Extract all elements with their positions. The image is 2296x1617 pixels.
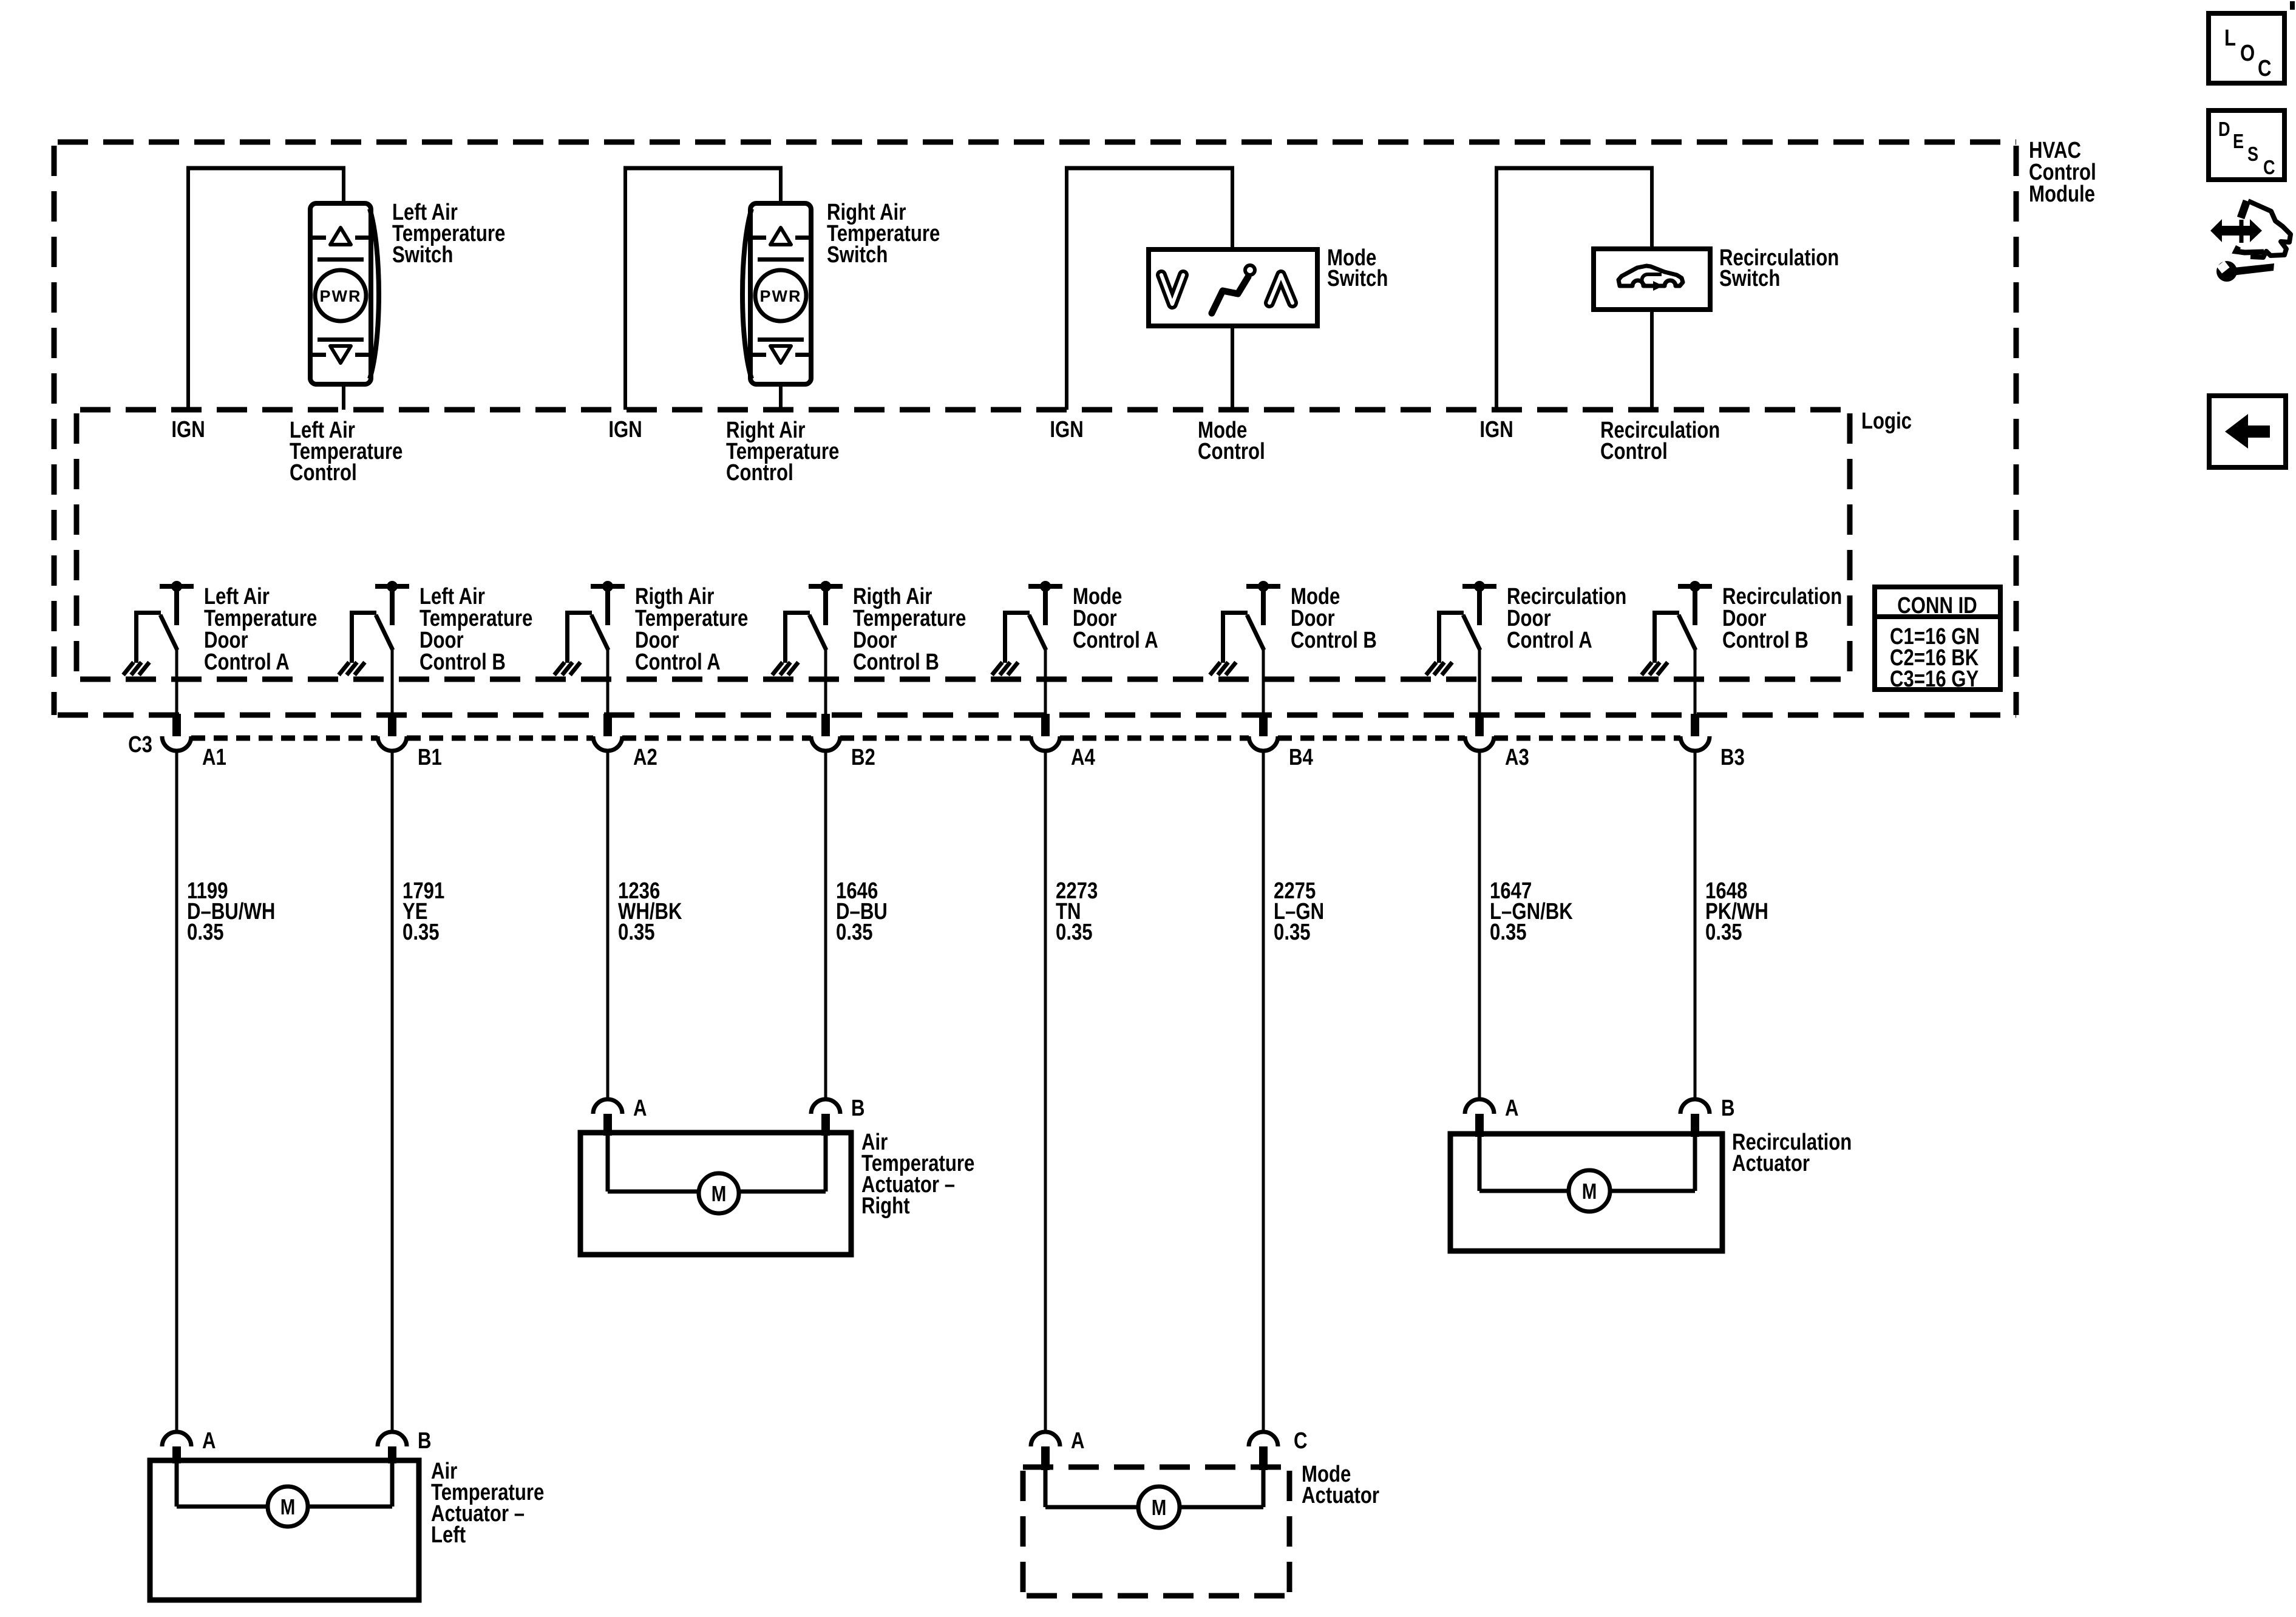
Right Air Temperature Switch up arrow xyxy=(770,228,791,245)
wire IGN Right Air Temperature (vertical to Logic) xyxy=(623,168,627,410)
icon: DESC box xyxy=(2209,110,2284,180)
wire 1791 run xyxy=(391,751,394,1432)
wire Left Air Control B gate output to connector xyxy=(391,648,394,714)
wire Recirculation Control B gate output to connector xyxy=(1694,648,1697,714)
motor M left air temperature actuator xyxy=(268,1486,308,1527)
wire Left Air Temperature Switch top lead xyxy=(342,168,345,203)
wire IGN feed Right Air Temperature (horizontal) xyxy=(623,166,783,171)
motor M recirculation actuator xyxy=(1569,1170,1610,1212)
CONN ID table xyxy=(1875,587,2000,690)
connector pin B4 terminal xyxy=(1259,714,1268,736)
switch blade Recirculation Door Control B xyxy=(1679,615,1696,650)
wire Right Air Temperature Switch bottom lead to Logic xyxy=(779,384,783,410)
svg-text:B: B xyxy=(851,1096,865,1121)
svg-text:E: E xyxy=(2233,131,2244,153)
switch blade Rigth Air Temperature Door Control A xyxy=(591,615,608,650)
logic driver: Mode Door Control B xyxy=(1210,581,1280,675)
Mode Switch down-chevron icon xyxy=(1161,275,1183,304)
svg-text:B1: B1 xyxy=(418,745,442,770)
connector pin A3 terminal xyxy=(1475,714,1484,736)
svg-text:M: M xyxy=(1152,1495,1167,1519)
wire Mode Control A gate output to connector xyxy=(1044,648,1047,714)
ground (chassis) for Left Air Temperature Door Control B xyxy=(339,662,349,675)
logic driver: Rigth Air Temperature Door Control A xyxy=(554,581,625,675)
connector pin B2 terminal xyxy=(821,714,830,736)
wire 1647 run xyxy=(1478,751,1481,1100)
ground (chassis) for Recirculation Door Control B xyxy=(1642,662,1652,675)
Logic dashed box xyxy=(76,410,1850,679)
connector pin B3 terminal xyxy=(1691,714,1699,736)
Left Air Temperature Switch PWR button xyxy=(315,270,366,321)
connector pin A actuator terminal xyxy=(1031,1432,1060,1446)
svg-text:IGN: IGN xyxy=(1050,417,1083,442)
switch blade Mode Door Control B xyxy=(1247,615,1264,650)
wire Mode Control B gate output to connector xyxy=(1262,648,1265,714)
svg-text:C1=16 GNC2=16 BKC3=16 GY: C1=16 GNC2=16 BKC3=16 GY xyxy=(1890,624,1980,692)
svg-text:A3: A3 xyxy=(1505,745,1529,770)
svg-text:B: B xyxy=(1721,1096,1735,1121)
switch blade Mode Door Control A xyxy=(1029,615,1046,650)
wire Recirculation Control A gate output to connector xyxy=(1478,648,1481,714)
svg-text:PWR: PWR xyxy=(760,287,802,305)
icon: back arrow box xyxy=(2209,396,2286,467)
Air Temperature Actuator Right inner wiring xyxy=(606,1133,610,1192)
switch blade Left Air Temperature Door Control A xyxy=(160,615,177,650)
logic driver: Recirculation Door Control A xyxy=(1426,581,1496,675)
svg-text:A: A xyxy=(1071,1428,1085,1454)
svg-text:A2: A2 xyxy=(633,745,657,770)
wire Recirculation Switch top lead xyxy=(1650,168,1654,249)
svg-text:L: L xyxy=(2224,25,2236,51)
wire 2273 run xyxy=(1044,751,1047,1432)
ground (chassis) for Recirculation Door Control A xyxy=(1426,662,1436,675)
wire 1236 run xyxy=(606,751,610,1100)
svg-text:PWR: PWR xyxy=(320,287,362,305)
logic driver: Left Air Temperature Door Control B xyxy=(339,581,409,675)
wire 1199 run xyxy=(175,751,178,1432)
Mode Switch box xyxy=(1149,249,1317,326)
svg-text:Logic: Logic xyxy=(1861,408,1912,434)
svg-text:A1: A1 xyxy=(202,745,226,770)
wire Mode Switch bottom lead to Logic xyxy=(1231,326,1234,410)
svg-text:IGN: IGN xyxy=(1479,417,1513,442)
logic driver: Mode Door Control A xyxy=(992,581,1062,675)
svg-text:D: D xyxy=(2218,119,2230,141)
logic driver: Recirculation Door Control B xyxy=(1642,581,1712,675)
switch blade Recirculation Door Control A xyxy=(1463,615,1480,650)
wire Rigth Air Control A gate output to connector xyxy=(606,648,610,714)
wire Left Air Control A gate output to connector xyxy=(175,648,178,714)
wire IGN Mode (vertical to Logic) xyxy=(1065,168,1068,410)
Mode Actuator inner wiring xyxy=(1044,1467,1048,1507)
svg-text:M: M xyxy=(1582,1179,1597,1203)
svg-text:C: C xyxy=(2258,56,2272,81)
ground (chassis) for Mode Door Control A xyxy=(992,662,1002,675)
Recirculation Actuator inner wiring xyxy=(1478,1134,1482,1191)
svg-text:A: A xyxy=(202,1428,216,1454)
wire Right Air Temperature Switch top lead xyxy=(779,168,783,203)
wire Mode Switch top lead xyxy=(1231,168,1234,249)
svg-text:C: C xyxy=(2263,157,2275,179)
wire 2275 run xyxy=(1262,751,1265,1432)
logic driver: Left Air Temperature Door Control A xyxy=(123,581,194,675)
switch: Right Air Temperature Switch rocker body xyxy=(742,209,752,379)
svg-text:S: S xyxy=(2247,144,2258,166)
svg-text:M: M xyxy=(712,1181,727,1205)
connector pin A actuator terminal xyxy=(162,1432,191,1446)
svg-text:IGN: IGN xyxy=(171,417,205,442)
wire 1646 run xyxy=(824,751,827,1100)
Recirculation Switch recirc arrow xyxy=(1642,274,1662,286)
connector pin A2 terminal xyxy=(603,714,612,736)
svg-text:B3: B3 xyxy=(1720,745,1745,770)
svg-text:IGN: IGN xyxy=(608,417,642,442)
connector pin C actuator terminal xyxy=(1249,1432,1278,1446)
svg-text:O: O xyxy=(2240,41,2255,66)
connector pin A actuator terminal xyxy=(593,1099,622,1114)
motor M right air temperature actuator xyxy=(699,1173,739,1213)
svg-text:CONN ID: CONN ID xyxy=(1897,593,1977,619)
Mode Switch up-chevron icon xyxy=(1269,275,1292,303)
switch blade Rigth Air Temperature Door Control B xyxy=(809,615,826,650)
Recirculation Switch box xyxy=(1594,249,1710,310)
connector pin A actuator terminal xyxy=(1465,1099,1494,1114)
switch blade Left Air Temperature Door Control B xyxy=(376,615,393,650)
icon: hand with double arrow and wrench xyxy=(2210,201,2291,282)
connector face dotted line xyxy=(191,736,378,741)
logic driver: Rigth Air Temperature Door Control B xyxy=(772,581,843,675)
wire IGN Left Air Temperature (vertical to Logic) xyxy=(186,168,190,410)
switch: Left Air Temperature Switch rocker body xyxy=(370,209,379,379)
Right Air Temperature Switch PWR button xyxy=(755,270,806,321)
ground (chassis) for Rigth Air Temperature Door Control B xyxy=(772,662,783,675)
Recirculation Switch car icon xyxy=(1618,266,1683,286)
wire IGN feed Left Air Temperature (horizontal) xyxy=(186,166,345,171)
Mode Switch seat icon xyxy=(1212,277,1248,313)
svg-text:C: C xyxy=(1294,1428,1308,1454)
wire Left Air Temperature Switch bottom lead to Logic xyxy=(342,384,345,410)
icon: LOC box xyxy=(2209,13,2284,83)
motor M mode actuator xyxy=(1138,1486,1180,1528)
actuator: Recirculation Actuator box xyxy=(1450,1134,1722,1251)
svg-text:A: A xyxy=(633,1096,647,1121)
Left Air Temperature Switch up arrow xyxy=(330,228,351,245)
actuator: Mode Actuator dashed box xyxy=(1023,1467,1289,1596)
wire Rigth Air Control B gate output to connector xyxy=(824,648,827,714)
svg-text:M: M xyxy=(280,1494,296,1519)
ground (chassis) for Left Air Temperature Door Control A xyxy=(123,662,134,675)
svg-text:B4: B4 xyxy=(1289,745,1313,770)
wire 1648 run xyxy=(1694,751,1697,1100)
wire IGN Recirculation (vertical to Logic) xyxy=(1495,168,1498,410)
connector pin B actuator terminal xyxy=(811,1099,840,1114)
connector pin A4 terminal xyxy=(1041,714,1050,736)
Right Air Temperature Switch down arrow xyxy=(758,337,804,342)
Air Temperature Actuator Left inner wiring xyxy=(175,1460,179,1507)
ground (chassis) for Mode Door Control B xyxy=(1210,662,1220,675)
ground (chassis) for Rigth Air Temperature Door Control A xyxy=(554,662,565,675)
connector pin A1 terminal xyxy=(172,714,181,736)
wire IGN feed Recirculation (horizontal) xyxy=(1495,166,1654,171)
connector pin B actuator terminal xyxy=(1680,1099,1710,1114)
HVAC Control Module dashed box xyxy=(54,142,2016,715)
svg-text:B2: B2 xyxy=(851,745,875,770)
svg-text:B: B xyxy=(418,1428,432,1454)
svg-text:C3: C3 xyxy=(128,732,152,758)
wire Recirculation Switch bottom lead to Logic xyxy=(1650,310,1654,410)
wire IGN feed Mode (horizontal) xyxy=(1065,166,1234,171)
actuator: Air Temperature Actuator - Left box xyxy=(150,1460,419,1600)
svg-text:A: A xyxy=(1505,1096,1519,1121)
connector pin B1 terminal xyxy=(388,714,396,736)
Left Air Temperature Switch down arrow xyxy=(318,337,364,342)
connector pin B actuator terminal xyxy=(378,1432,407,1446)
page corner mark xyxy=(2290,1,2295,10)
svg-text:A4: A4 xyxy=(1071,745,1095,770)
actuator: Air Temperature Actuator - Right box xyxy=(580,1133,851,1255)
